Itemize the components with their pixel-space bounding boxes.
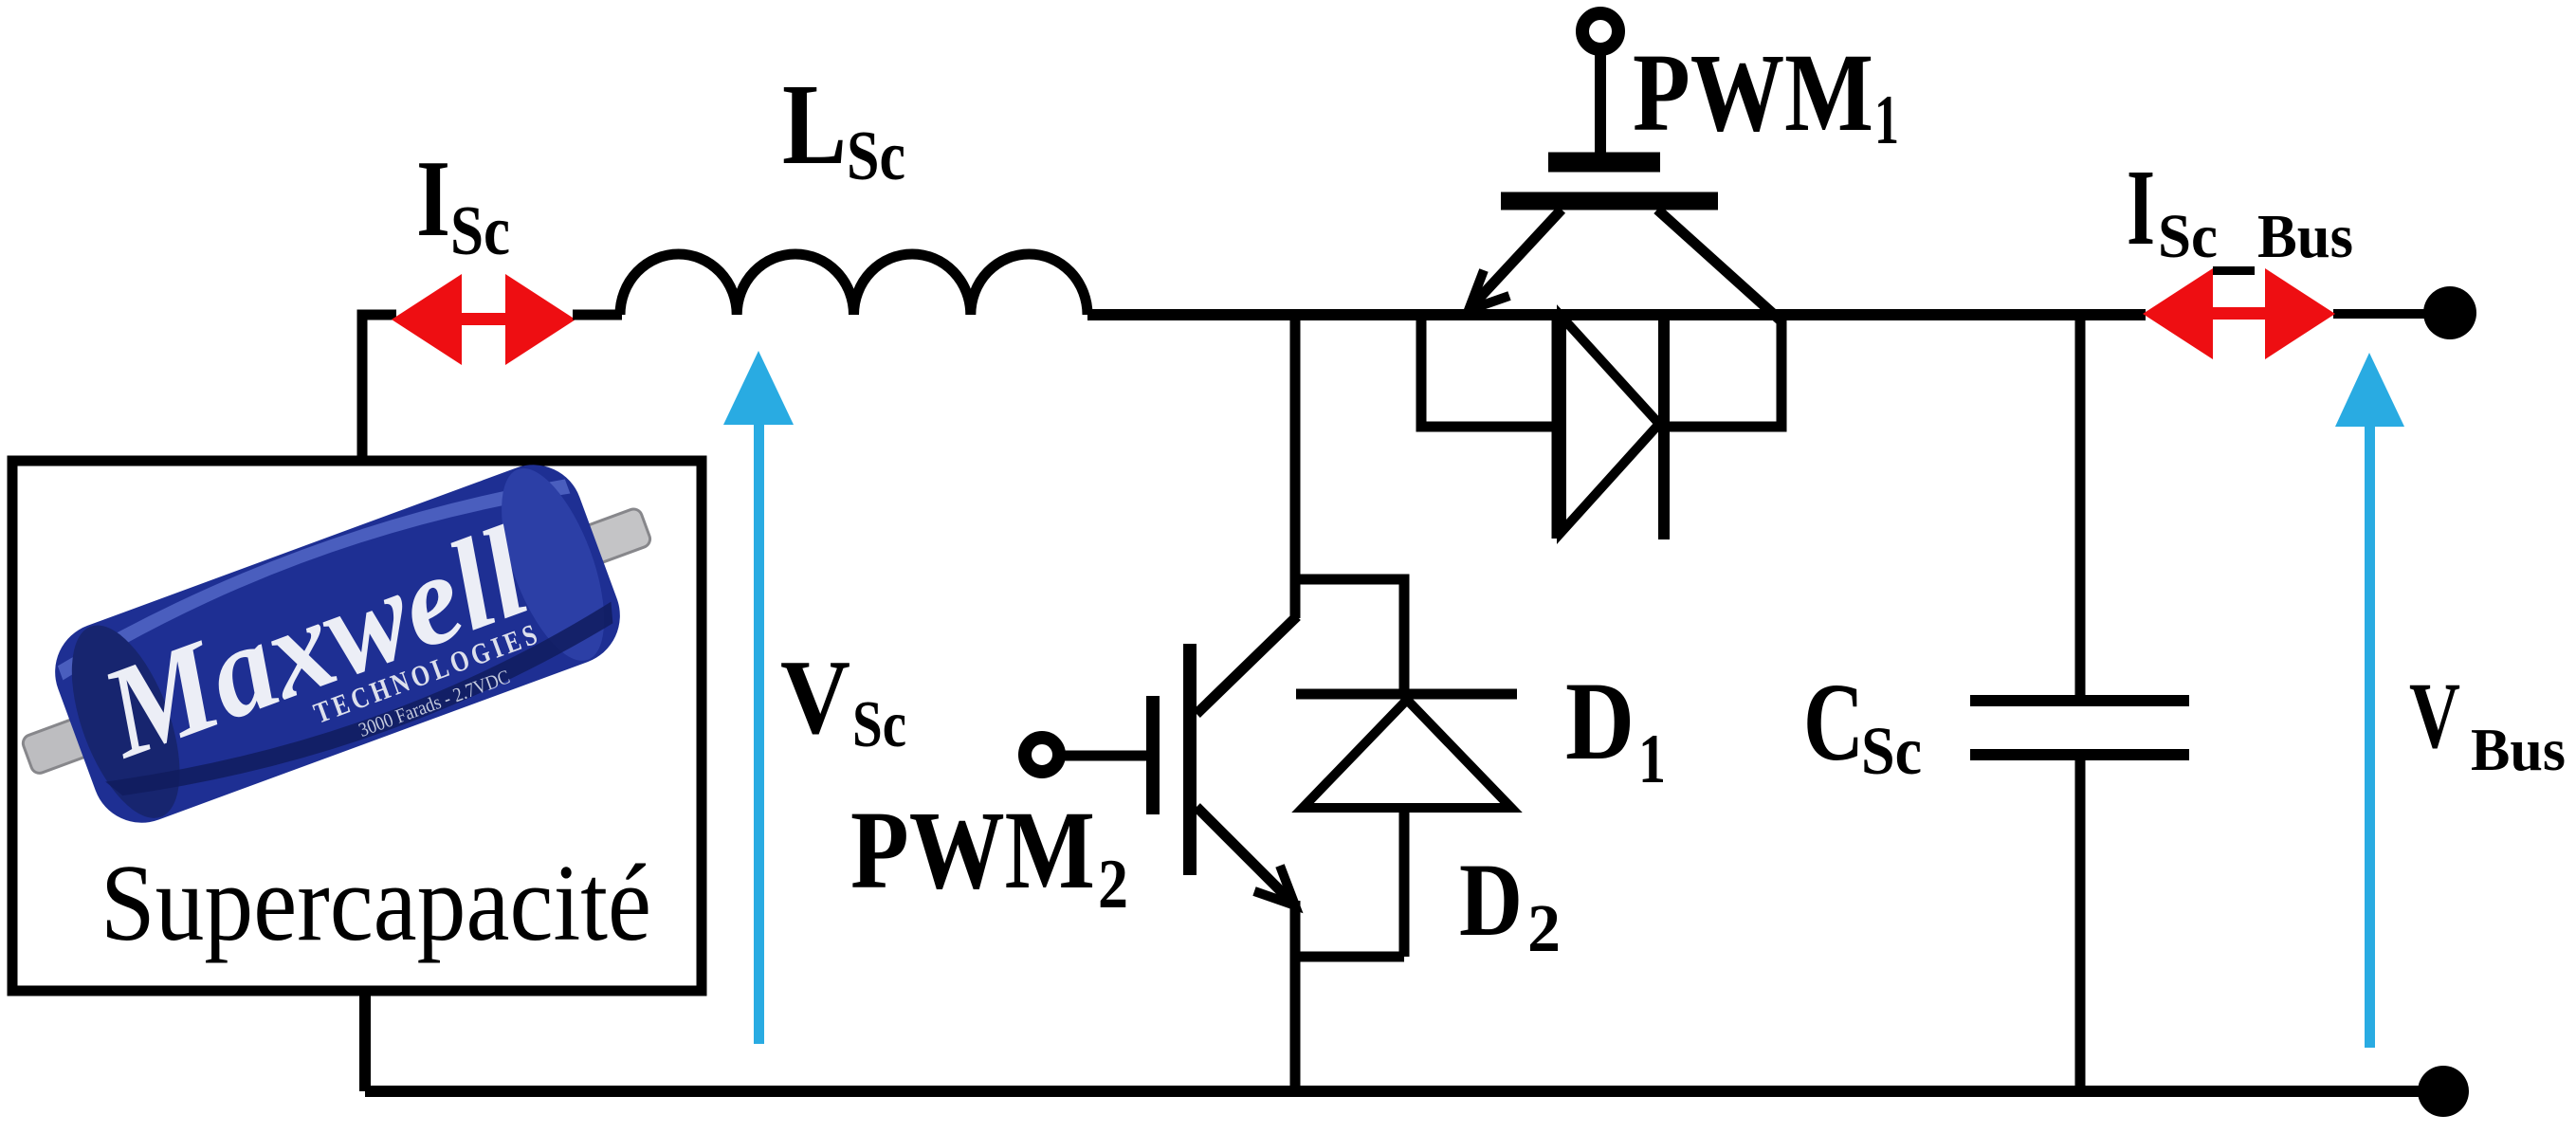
svg-text:Sc: Sc <box>847 118 905 195</box>
svg-text:PWM: PWM <box>850 788 1095 912</box>
transistor IGBT PWM2 : gate lead <box>1059 751 1147 761</box>
transistor IGBT PWM1 : main bar <box>1501 192 1718 210</box>
node terminal bottom right <box>2418 1066 2469 1117</box>
transistor IGBT PWM2 : emitter vertical to rail <box>1290 901 1301 1091</box>
voltage arrow V_Sc <box>723 351 794 1044</box>
svg-text:D: D <box>1565 659 1635 783</box>
svg-text:V: V <box>2409 663 2460 768</box>
current arrow I_Sc <box>392 274 575 365</box>
svg-text:D: D <box>1459 842 1523 958</box>
diode D2 anode line <box>1399 808 1410 957</box>
transistor IGBT PWM1 : emitter diagonal <box>1475 210 1562 302</box>
transistor IGBT PWM2 : collector diagonal <box>1197 616 1297 714</box>
svg-text:Sc: Sc <box>450 192 510 270</box>
diode D2 top stub <box>1295 579 1404 694</box>
svg-text:Bus: Bus <box>2471 716 2566 783</box>
transistor IGBT PWM2 : emitter arrowhead <box>1254 866 1295 905</box>
diode D1 cathode bar <box>1658 313 1670 539</box>
svg-text:Bus: Bus <box>2257 202 2353 271</box>
svg-text:L: L <box>782 61 847 189</box>
svg-text:Supercapacité: Supercapacité <box>100 843 651 963</box>
svg-text:I: I <box>2127 147 2155 267</box>
diode D1 left stub <box>1421 315 1557 427</box>
voltage arrow V_Bus <box>2335 353 2404 1048</box>
wire junction vertical to lower IGBT <box>1290 315 1301 618</box>
bottom rail wire <box>365 1086 2446 1097</box>
transistor IGBT PWM2 : emitter diagonal <box>1197 807 1293 904</box>
svg-text:PWM: PWM <box>1633 30 1873 155</box>
diode D1 anode line <box>1552 313 1562 539</box>
top wire right of arrow to terminal <box>2333 309 2450 319</box>
diode D2 cathode bar <box>1296 689 1517 700</box>
transistor IGBT PWM1 : gate bar <box>1548 153 1660 173</box>
diode D1 triangle <box>1562 317 1659 532</box>
transistor IGBT PWM2 : gate bar <box>1146 696 1160 814</box>
diode D2 bottom stub <box>1295 952 1404 962</box>
inductor L_Sc <box>620 254 1087 315</box>
transistor IGBT PWM2 : main bar <box>1183 644 1197 875</box>
svg-text:1: 1 <box>1874 82 1899 159</box>
top wire from inductor to right red arrow <box>1087 309 2146 320</box>
svg-text:V: V <box>780 639 850 757</box>
svg-text:1: 1 <box>1638 721 1666 798</box>
capacitor C_Sc bottom plate <box>1970 749 2189 760</box>
capacitor C_Sc bottom lead <box>2075 755 2086 1091</box>
transistor IGBT PWM1 : emitter arrowhead <box>1469 270 1509 310</box>
wire between arrow and inductor <box>573 310 622 320</box>
capacitor C_Sc top lead <box>2075 315 2086 700</box>
diode D2 triangle <box>1303 700 1511 808</box>
current arrow I_Sc_Bus <box>2143 268 2335 359</box>
transistor IGBT PWM1 : gate terminal circle <box>1582 13 1618 49</box>
svg-text:Sc: Sc <box>852 688 906 761</box>
svg-text:C: C <box>1803 660 1864 784</box>
svg-text:2: 2 <box>1527 890 1561 966</box>
diode D1 right stub <box>1664 315 1781 427</box>
wire box bottom to rail <box>359 991 371 1091</box>
svg-text:Sc: Sc <box>2158 202 2218 271</box>
svg-text:Sc: Sc <box>1861 713 1922 789</box>
supercapacitor photo Maxwell <box>0 433 683 855</box>
svg-text:I: I <box>416 138 450 260</box>
transistor IGBT PWM2 : gate terminal circle <box>1025 738 1059 772</box>
node terminal top right <box>2423 286 2476 339</box>
capacitor C_Sc top plate <box>1970 695 2189 706</box>
supercapacitor box <box>12 461 702 991</box>
transistor IGBT PWM1 : gate lead <box>1595 49 1606 156</box>
wire left vertical from top wire to box <box>362 315 396 461</box>
svg-text:2: 2 <box>1098 846 1128 923</box>
transistor IGBT PWM1 : collector diagonal <box>1657 210 1781 320</box>
